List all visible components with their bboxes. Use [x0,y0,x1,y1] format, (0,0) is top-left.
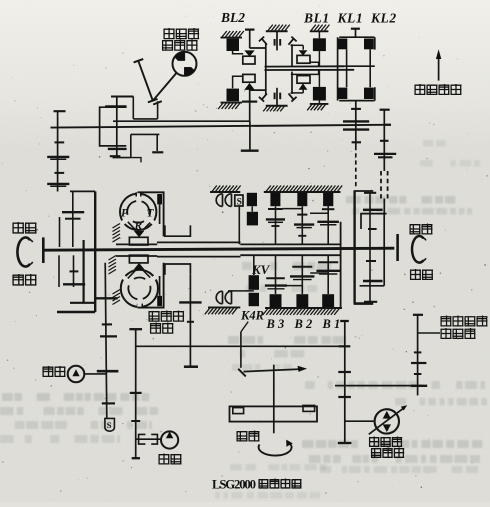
freewheel F2 lower triangle [244,83,254,90]
gear col2 upper shaft [301,206,303,244]
gear UL T-cap bar [111,95,134,97]
gear A wheel top [96,297,118,299]
converter inner box upper [165,225,191,236]
gear col1 tick2 [271,225,279,227]
converter lower notch white [137,303,141,309]
freewheel F2 lower cage [243,74,255,82]
countershaft T-top [340,320,349,322]
gear B tick 1 [130,392,142,394]
left drum outer wall [94,191,96,312]
right unit T-cap top [364,192,376,194]
fan gear bar 2 [411,385,427,387]
hydraulic motor HM1 circle [173,52,197,76]
main axis shaft [42,248,394,250]
output flange left T-bar [42,237,45,263]
gear bar right column narrow [378,156,393,158]
label output left [13,274,25,286]
hydraulic motor HM1 fill segment upper-left [175,52,185,61]
gear B tick 2 [131,420,140,422]
clutch KL1 lower plates [338,88,347,99]
wire col1 to col2 [283,208,303,210]
gear column A tick 1 [55,141,65,143]
freewheel M2 lower triangle [299,83,308,89]
gear column A tick 2 [55,172,65,174]
gear UL shaft [116,97,118,157]
main pump triangle [166,431,173,438]
gear col1 lower wheel [265,284,287,286]
brake BL2 lower block [227,89,240,102]
bearing T shaft A [102,323,112,325]
dashed shaft left [355,146,357,188]
gear col1 upper block [270,193,280,206]
input rotation arrow [259,443,292,455]
right unit inner bracket [360,214,387,286]
label forward right [410,225,421,234]
right unit T upper [368,228,377,230]
bearing T-foot shaft B [132,457,140,459]
brake BL1 upper ground hatch [310,30,329,32]
wire pump to KV lower [228,290,254,292]
countershaft T-foot [338,442,352,444]
right drum bottom [354,302,374,305]
label forward left [13,222,25,234]
mesh chain upper elbow [133,97,157,119]
converter gap lower-left white [147,217,155,224]
gear col3 lower T [318,261,338,263]
gear col1 lower T [266,277,285,279]
gear tick on dashed shaft left [352,141,361,143]
gear column A bearing T-cap [54,110,66,112]
bleed-through text center [242,262,331,270]
HM2 variable arrow [369,408,404,435]
bleed-through text bottom-left [2,393,149,401]
converter mount hatch lower [116,255,157,257]
bearing stub x190 tick [184,366,198,368]
gear col2 tick2 [298,235,306,237]
brake BL1 upper post [318,31,320,38]
brake BL2 upper ground hatch [221,37,243,39]
fan gear tick 1 [414,351,422,353]
shaft A vertical [105,263,107,419]
dashed coupling right column [380,171,382,199]
rotation C right [412,236,423,263]
bevel box top ground hatch [266,30,288,32]
gear col2 upper block [297,193,307,206]
brake B2 block [296,294,308,307]
svg-text:BL2: BL2 [220,10,245,25]
bearing T-foot PTO [184,365,198,367]
reactor wedge lower [128,270,150,278]
converter lower output stubs [137,304,139,308]
gear on BL2 shaft [242,100,257,102]
gear col1 tick [268,208,283,210]
bevel mesh bars upper [274,39,276,46]
gear bar upper on L1 [343,120,369,122]
gear col3 tick [322,208,335,210]
gear UL wheel upper [105,105,126,107]
bevel gear upper-right [289,38,294,44]
top lighten band [0,0,1,1]
wire K4R vertical [240,332,242,368]
countershaft tick 1 [338,371,351,373]
svg-text:K4R: K4R [240,309,264,323]
converter housing line lower [157,256,241,258]
gear UL T-foot [110,155,121,157]
wire col2 to col3 [310,212,328,214]
gear A bar 2 [100,335,117,337]
converter mount hatch lower2 [113,290,121,305]
label output right [410,269,421,280]
reactor box lower [129,255,148,263]
drum UL bracket [100,107,127,146]
pump symbols lower [216,291,231,304]
clutch KV upper hub [251,206,253,212]
gearbox lower bus [240,254,341,256]
power line 1 horizontal [136,345,345,347]
gear bar right column wide [374,153,396,155]
clutch KL frame [338,37,375,100]
converter lower gap UL white [149,275,157,282]
shaft below KL vertical [355,101,357,146]
brake BL1 lower hub [318,70,320,87]
suction strainer S [105,418,115,431]
idler tick lower [148,99,158,102]
blur filter def [0,0,1,1]
torque converter lower inner ring [128,277,150,299]
shaft BL2 lower stub [249,121,251,149]
bearing T-foot BL2 shaft [241,149,259,151]
torque converter lower circle [121,270,158,307]
left unit gear shaft upper2 [59,217,61,247]
left unit gear T upper [65,218,81,220]
gearbox bottom hatch main [265,307,342,309]
wire bevel to freewheel M1 [291,44,304,46]
gear col3 lower wheel [316,270,340,272]
shaft line L1 long [51,125,392,128]
gear col2 lower wheel [290,275,314,277]
motor shaft diagonal [153,73,177,101]
gearbox top hatch main [264,191,341,193]
converter housing line upper [157,241,241,243]
converter top notch white [136,192,140,198]
gear col2 tick [297,214,307,216]
brake BL1 upper hub [318,51,320,66]
left unit gear T lower [70,270,79,272]
gear PTO tick [187,321,194,323]
reactor wedge upper [128,222,150,230]
freewheel F1 upper cage [243,56,255,64]
left drum inner wall [82,240,84,303]
gear col1 lower shaft [275,255,277,294]
brake BL2 lower ground hatch [221,102,243,104]
input shaft vertical [273,365,275,434]
bevel gear lower-left [262,94,267,100]
reactor one-way arrow lower [134,263,145,270]
fan gear bar [411,362,426,364]
link BL2 block to freewheel lower [233,76,243,88]
brake BL1 lower block [313,87,326,101]
bevel carrier vertical [265,44,267,94]
junction tick line1 [339,345,351,347]
reactor box upper [129,237,148,245]
paper noise [0,0,1,1]
reactor one-way arrow upper [134,231,145,238]
bevel right vertical upper [291,44,293,66]
converter inner box lower [165,264,191,275]
HM2 triangle up [383,411,391,419]
right unit T lower [366,260,376,262]
left drum outer bottom [57,311,95,313]
wire cross shaft to M2 cage [291,70,319,74]
output flange right T-bar [396,234,399,261]
bevel right vertical lower [291,72,293,94]
left drum outer top [70,190,95,192]
brake BL2 upper block [227,39,240,51]
bleed-through text right-middle [346,196,455,204]
shaft converter PTO vertical [189,275,191,367]
hydraulic motor HM1 fill segment lower-right [184,67,194,76]
label steering motor bottom 2 [371,449,381,458]
bevel idler diagonal [138,61,153,101]
torque converter upper inner ring [127,201,149,223]
clutch KV upper block 2 [247,212,258,226]
fan shaft vertical [417,315,419,396]
gear A wheel main [97,370,119,373]
bevel input shaft lower [276,88,278,107]
converter input stubs [135,192,137,196]
clutch KL hub verticals [346,49,348,87]
clutch KV lower block 2 [249,293,259,306]
svg-text:BL1 KL1 KL2: BL1 KL1 KL2 [303,11,397,26]
mesh tick at diagonal foot [153,101,162,104]
left unit bracket lower [58,255,60,287]
gear PTO wide [179,301,201,303]
bevel box bottom ground hatch [266,105,288,107]
lockup clutch rod lower [157,296,162,306]
label steering motor top [164,28,175,39]
gearbox bottom hatch left [208,306,240,308]
label lockup clutch [149,312,160,321]
bleed-through text bottom-right [305,381,485,389]
svg-text:B 3: B 3 [266,317,285,331]
svg-text:LSG2000: LSG2000 [212,478,256,492]
bevel input shaft upper [276,31,278,50]
filter S-box upper [235,195,243,206]
coupling main pump [139,434,158,444]
right drum top [354,190,374,192]
right unit wheel lower [363,280,383,282]
gear column A shaft [57,111,59,191]
shaft B vertical [135,329,137,458]
freewheel M1 upper triangle [299,50,308,55]
gear UL wheel lower [108,148,127,150]
svg-text:P: P [121,208,129,220]
clutch KL bearing T-cap [351,28,360,30]
brake B1 block [322,294,334,307]
scan speckles [311,13,314,16]
converter housing top [137,192,163,236]
gear bar lower on L1 [343,128,369,130]
wire col1-col2 lower [285,285,302,287]
brake BL1 lower ground hatch [310,103,329,105]
gear col3 upper block [323,193,333,206]
countershaft tick 2 [338,396,351,398]
hydraulic motor HM2 circle [375,409,399,433]
freewheel M1 upper cage [297,55,310,63]
gear tick right column [380,140,389,142]
right unit T-cap bottom [364,301,377,303]
bearing T-cap shaft B [129,328,142,330]
right unit wheel upper [363,209,383,211]
brake BL1 upper block [313,38,326,51]
aux pump triangle [72,369,79,376]
wire S-box down [238,206,240,244]
svg-text:S: S [237,197,242,207]
label main pump [159,454,170,465]
gear col2 wheel [294,223,314,225]
shaft line L1 right end tick [385,124,391,126]
fan shaft leader [418,332,440,334]
clutch KL2 lower plates [364,88,374,99]
left unit gear wheel upper [62,211,84,213]
svg-text:T: T [147,208,155,220]
bevel gear upper-left [262,38,267,44]
lockup clutch rod upper [157,194,162,204]
fan gear tick 2 [414,373,422,375]
shaft BL2 vertical [249,90,251,122]
countershaft vertical [344,321,346,443]
mesh chain lower elbow [113,134,160,157]
wire bevel to freewheel M2 [291,92,304,94]
gear tick below KL [351,108,361,110]
link BL2 block to freewheel upper [233,51,244,54]
right unit gear shaft [369,193,371,302]
gearbox upper bus [240,243,341,245]
clutch KV lower hub drop [253,255,255,275]
input coupling inner right [303,405,315,411]
svg-text:B 2: B 2 [294,317,313,331]
clutch KV lower block 1 [249,275,259,290]
bevel mesh bars lower [274,93,276,100]
shaft right column upper [383,110,385,171]
gear column A wheel 1 [47,156,69,158]
power line 2 horizontal [335,385,424,387]
svg-text:S: S [107,420,112,430]
brake B3 block [270,294,282,307]
left unit gear shaft upper [72,192,74,248]
input coupling outer [230,406,318,421]
bleed-through text mid-lower [228,336,346,344]
idler tick upper [134,59,144,62]
rotation C left [17,238,30,267]
mesh lower T-gear [156,134,158,151]
fan shaft T-top [413,314,423,316]
mesh chain lower stub [131,158,141,163]
wire col2-col3 lower [310,272,328,274]
left unit gear wheel lower [63,283,85,285]
gear col3 upper shaft [327,206,329,244]
left drum inner bottom [70,302,94,304]
K4R pointer [241,322,248,332]
converter lower gap UR white [121,275,129,282]
torque converter upper circle [120,194,156,230]
label fan pump drive 1 [441,316,452,327]
main pump circle [161,431,178,448]
shaft right column to output [383,199,385,214]
gear col3 wheel [317,221,339,223]
bearing T right column [380,109,390,111]
wire aux pump to shaft A [84,373,106,375]
freewheel M2 lower cage [297,76,310,84]
gear A bar 3 [102,402,115,404]
input coupling inner left [233,408,244,414]
bleed-through top-right speck [423,140,446,147]
shaft line L2 upper [113,120,250,122]
gear col1 upper shaft [275,206,277,244]
clutch KL2 upper plates [364,39,374,50]
converter gap lower-right white [121,217,129,224]
label input [237,432,248,441]
bevel tick input [238,369,246,377]
clutch KL1 upper plates [338,39,347,50]
svg-text:B 1: B 1 [322,317,341,331]
label fan pump drive 2 [441,328,452,339]
bearing T-post BL2 [245,29,255,31]
gear col3 lower shaft [327,255,329,294]
aux pump circle [68,366,85,383]
HM2 triangle down [383,424,391,432]
label driving direction [415,84,426,95]
steering cross shaft line 1 [265,65,345,67]
bevel gear lower-right [289,94,294,100]
input bevel line with arrow [244,369,304,372]
gear col1 wheel [266,218,285,220]
clutch KV upper block 1 [247,193,257,206]
label aux pump [43,366,54,377]
gearbox right wall [340,222,342,308]
gear col2 lower T [292,266,312,268]
steering cross shaft line 2 [265,69,355,71]
bleed-through caption rows [230,464,326,471]
arrow driving direction [438,57,440,81]
pump symbols upper [216,194,231,207]
label steering motor bottom 1 [369,437,379,447]
wire M1 cage to cross shaft [310,62,319,66]
gear col2 lower shaft [301,255,303,294]
wire BL2 post to bevel [250,47,266,49]
gear column A wheel 2 [47,183,69,185]
converter mount hatch upper [116,243,157,245]
wire to steering motor 2 [345,420,375,422]
gearbox top hatch left [210,191,240,193]
wire bevel lower-left link [250,89,266,91]
right drum wall [353,191,355,304]
converter housing bottom [137,263,163,308]
freewheel F1 upper triangle [244,50,254,56]
